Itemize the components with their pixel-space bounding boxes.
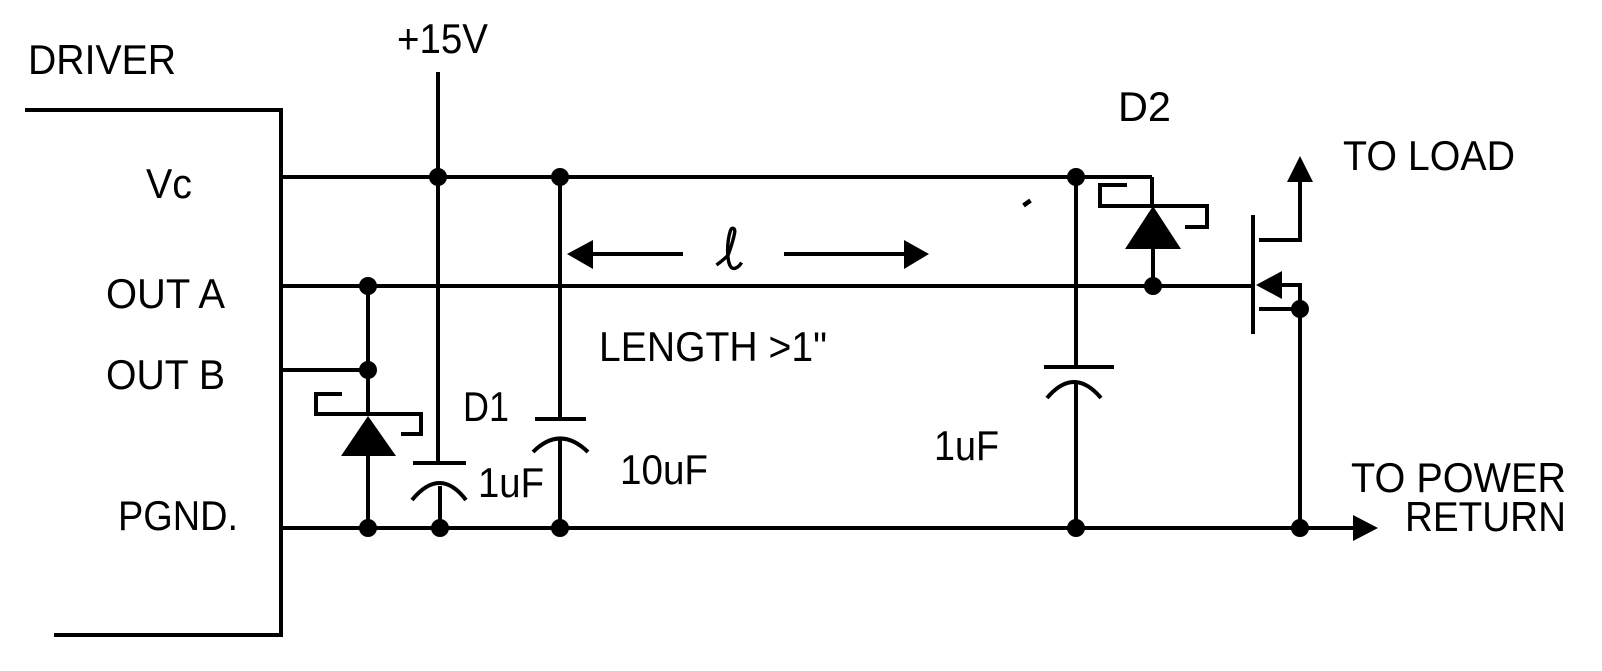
wire C2 bottom to PGND [558,440,562,528]
capacitor C2 10uF top plate [535,417,586,421]
transistor Q1 drain lead [1259,182,1300,240]
svg-text:Vc: Vc [146,160,192,207]
svg-text:TO LOAD: TO LOAD [1343,132,1515,179]
wire Q1 source down to PGND [1298,309,1302,528]
transistor Q1 body arrow [1256,271,1282,299]
wire OUT B horizontal [281,368,368,372]
svg-text:OUT A: OUT A [106,270,225,317]
dimension arrow left segment [591,252,683,256]
transistor Q1 gate plate [1251,215,1255,334]
capacitor C1 1uF top plate [413,461,466,465]
wire OUT A horizontal [281,284,1255,288]
wire C3 bottom to PGND [1074,384,1078,528]
node junction Vc/C2 branch [551,168,569,186]
capacitor C1 1uF curved bottom plate [412,483,466,500]
diode D2 zener cathode bar [1100,185,1207,227]
wire +15V vertical supply to cap C1 top [436,72,440,463]
stray mark [1024,201,1031,206]
node junction +15V/Vc [429,168,447,186]
svg-text:OUT B: OUT B [106,351,225,398]
node junction C3/PGND [1067,519,1085,537]
wire D1 anode to PGND [366,454,370,528]
capacitor C3 1uF curved bottom plate [1047,382,1101,398]
node junction D1/PGND [359,519,377,537]
diode D1 triangle [341,416,396,456]
svg-text:LENGTH >1": LENGTH >1" [599,323,827,370]
svg-text:+15V: +15V [397,15,488,62]
wire PGND horizontal [281,526,1355,530]
wire C1 bottom to PGND [438,486,442,528]
arrow TO POWER RETURN head [1353,515,1378,541]
node junction OUT B [359,361,377,379]
capacitor C3 1uF top plate [1044,365,1114,369]
diode D1 zener cathode bar [316,394,421,434]
wire C3 branch vertical from Vc to C3 top [1074,177,1078,367]
wire Vc corner down to D2 cathode [1150,177,1154,206]
node junction Q1 source/PGND [1291,519,1309,537]
wire D2 anode to OUT A [1151,247,1155,285]
transistor Q1 body lead to source [1280,285,1300,309]
wire C2 branch vertical from Vc [558,177,562,419]
node junction Q1 source/body [1291,300,1309,318]
script letter l (length symbol) [717,228,742,268]
svg-text:D1: D1 [463,383,509,430]
driver box U1 outline [25,110,281,635]
transistor Q1 source lead [1259,307,1300,311]
node junction C1/PGND [431,519,449,537]
svg-text:1uF: 1uF [478,459,544,506]
svg-text:10uF: 10uF [620,446,708,493]
node junction D2/OUT A [1144,277,1162,295]
svg-text:1uF: 1uF [934,422,999,469]
wire OUT A to OUT B vertical tie down to D1 [366,286,370,414]
svg-text:D2: D2 [1118,83,1171,130]
dimension arrow right head [904,240,929,269]
dimension arrow right segment [784,252,905,256]
dimension arrow left head [567,240,593,269]
diode D2 triangle [1125,206,1181,249]
arrow TO LOAD head [1287,156,1313,182]
node junction C2/PGND [551,519,569,537]
svg-text:PGND.: PGND. [118,492,238,539]
node junction Vc/C3 branch [1067,168,1085,186]
node junction OUT A / OUT B tie [359,277,377,295]
svg-text:DRIVER: DRIVER [28,36,176,83]
svg-text:RETURN: RETURN [1405,493,1566,540]
capacitor C2 10uF curved bottom plate [533,439,588,453]
wire Vc horizontal [281,175,1152,179]
